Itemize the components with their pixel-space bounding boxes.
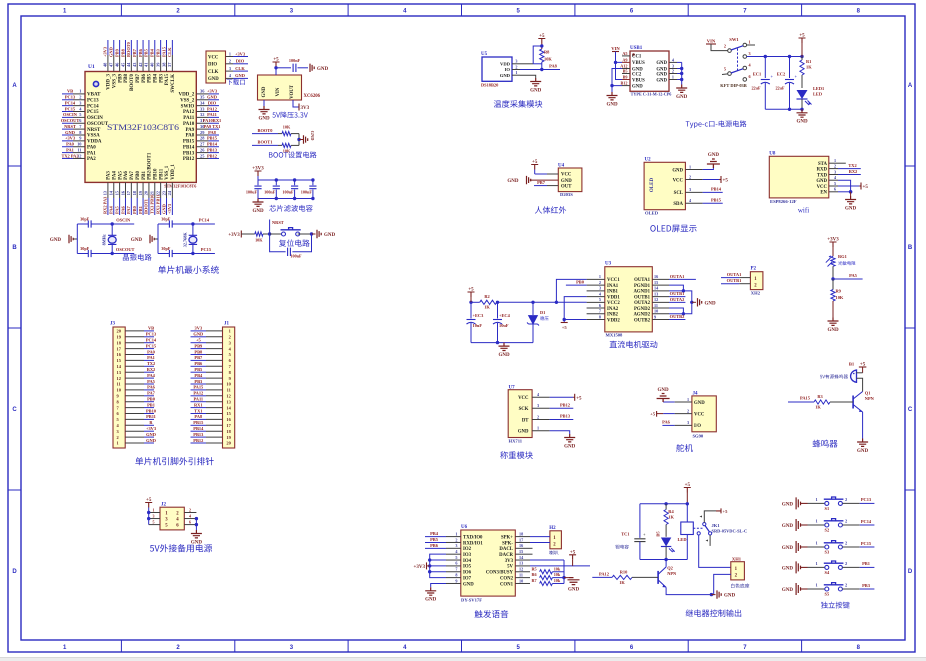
svg-text:PB1: PB1 — [862, 561, 870, 566]
U1 pin 22 PB11 — [160, 182, 162, 198]
svg-text:14: 14 — [109, 190, 114, 195]
svg-text:2: 2 — [455, 537, 457, 542]
svg-text:B9: B9 — [623, 75, 628, 80]
svg-text:3: 3 — [537, 403, 539, 408]
svg-text:PB11: PB11 — [159, 168, 164, 180]
svg-text:OSCIN: OSCIN — [63, 112, 78, 117]
svg-text:5: 5 — [517, 9, 521, 15]
svg-text:100nF: 100nF — [264, 190, 276, 195]
U1 pin 47 VSS_3 — [113, 55, 115, 72]
wire net PA9 TX1 — [209, 128, 220, 130]
capacitor EC4 10uF — [497, 302, 499, 318]
svg-text:SPK-: SPK- — [502, 541, 513, 546]
svg-text:VDD: VDD — [500, 61, 511, 66]
switch lever 2-1 — [731, 46, 743, 50]
wire OUTB2 — [669, 319, 685, 321]
svg-text:1: 1 — [229, 51, 231, 56]
svg-text:TXD: TXD — [817, 173, 828, 178]
svg-text:33: 33 — [200, 106, 205, 111]
wire — [291, 144, 299, 146]
svg-text:OUTB1: OUTB1 — [634, 295, 651, 300]
wire net PA0 — [144, 354, 154, 356]
svg-text:10k: 10k — [554, 578, 561, 583]
wire net BOOT0 — [130, 40, 132, 55]
U1 pin 9 VDDA — [73, 140, 85, 142]
svg-text:16: 16 — [519, 543, 523, 548]
svg-text:17: 17 — [126, 190, 131, 195]
svg-text:1: 1 — [672, 75, 674, 80]
svg-text:GND: GND — [782, 502, 794, 507]
svg-text:PB10: PB10 — [153, 168, 158, 180]
svg-text:GND: GND — [658, 388, 670, 393]
svg-text:+: + — [771, 74, 774, 79]
svg-text:PB1: PB1 — [142, 171, 147, 180]
svg-text:PB15: PB15 — [183, 140, 195, 145]
svg-text:GND: GND — [317, 67, 329, 72]
svg-text:GND: GND — [207, 95, 217, 100]
svg-text:GND: GND — [656, 72, 667, 77]
svg-text:1: 1 — [749, 40, 751, 45]
ground — [69, 235, 73, 243]
svg-text:GND: GND — [724, 594, 736, 599]
ground — [259, 106, 270, 114]
svg-text:GND: GND — [796, 120, 808, 125]
svg-text:VIN: VIN — [707, 39, 716, 44]
net label OSCIN — [112, 223, 134, 225]
svg-text:GND: GND — [564, 444, 576, 449]
svg-text:5: 5 — [153, 520, 155, 525]
svg-text:GND: GND — [131, 238, 143, 243]
button S1 — [825, 501, 829, 505]
power port +5 — [569, 555, 576, 560]
svg-text:PC14: PC14 — [87, 104, 99, 109]
wire — [233, 77, 248, 79]
wire — [677, 73, 682, 75]
svg-text:PB12: PB12 — [560, 403, 570, 408]
U1 pin 19 PB1 — [142, 182, 144, 198]
wire net GND — [62, 134, 73, 136]
wire +5 drop — [801, 43, 803, 57]
wire net PB15 — [209, 140, 220, 142]
wire R8 to IO — [541, 62, 543, 70]
wire VCC1 — [556, 279, 586, 302]
svg-text:RX1: RX1 — [194, 402, 203, 407]
svg-text:+3V3: +3V3 — [207, 89, 218, 94]
U1 pin 35 VSS_2 — [196, 99, 208, 101]
svg-text:OUTB1: OUTB1 — [727, 278, 742, 283]
svg-text:+3V3: +3V3 — [235, 51, 246, 56]
wire net PB5 — [191, 371, 207, 373]
svg-text:PB12: PB12 — [207, 153, 217, 158]
U1 pin 36 VDD_2 — [196, 93, 208, 95]
svg-text:OSCOUT: OSCOUT — [87, 122, 109, 127]
U1 pin 8 VSSA — [73, 134, 85, 136]
svg-text:2: 2 — [79, 95, 81, 100]
capacitor 100nF — [288, 248, 291, 256]
wire join — [298, 134, 300, 146]
svg-text:PB2/BOOT1: PB2/BOOT1 — [148, 152, 153, 180]
power port +5 — [574, 394, 576, 401]
svg-text:10K: 10K — [283, 125, 291, 130]
svg-text:BOOT1: BOOT1 — [258, 140, 273, 145]
svg-text:VSS_2: VSS_2 — [180, 98, 195, 103]
svg-text:PB0: PB0 — [147, 397, 156, 402]
svg-text:8: 8 — [455, 572, 457, 577]
wire net +5 — [191, 342, 207, 344]
svg-text:R5: R5 — [532, 566, 537, 571]
wire net PB6 — [425, 547, 446, 549]
wire net PB7 — [136, 40, 138, 55]
svg-text:STM32F103C8T6: STM32F103C8T6 — [164, 184, 196, 189]
svg-text:39: 39 — [155, 62, 160, 67]
svg-text:1K: 1K — [619, 580, 625, 585]
svg-text:1: 1 — [687, 397, 689, 402]
wire PGND2/AGND2 — [669, 313, 683, 315]
wire SCL net PB14 — [703, 191, 723, 193]
svg-text:VBUS: VBUS — [632, 78, 645, 83]
svg-text:22uF: 22uF — [751, 86, 761, 91]
U1 pin 14 PA4 — [113, 182, 115, 198]
svg-text:PB12: PB12 — [193, 438, 203, 443]
wire gnd up — [703, 168, 714, 170]
wire net PA6 — [144, 389, 154, 391]
svg-text:2: 2 — [845, 518, 847, 523]
svg-text:11: 11 — [77, 147, 81, 152]
svg-text:20: 20 — [144, 190, 149, 195]
wire loop — [270, 234, 286, 252]
U1 pin 3 PC14 — [73, 105, 85, 107]
U1 pin 37 SWCLK — [171, 55, 173, 72]
wire net PA8 — [191, 418, 207, 420]
svg-text:IO6: IO6 — [463, 571, 472, 576]
U1 pin 1 VBAT — [73, 93, 85, 95]
wire OUTA1 — [669, 278, 696, 280]
wire VDD1/VDD2 +5 — [564, 297, 586, 323]
svg-text:GND: GND — [827, 328, 839, 333]
svg-text:2: 2 — [724, 44, 726, 49]
wire S5 pin2 net PB3 — [842, 588, 859, 590]
svg-text:RX2: RX2 — [147, 367, 156, 372]
capacitor 100nF — [293, 64, 296, 72]
caption Type-c口-电源电路 — [686, 120, 747, 128]
wire left rail — [76, 224, 78, 254]
svg-text:37: 37 — [167, 62, 172, 67]
svg-text:25: 25 — [200, 153, 205, 158]
resistor 10K — [282, 132, 291, 136]
svg-text:5V: 5V — [507, 565, 513, 570]
U1 pin 5 OSCIN — [73, 116, 85, 118]
wire — [430, 571, 446, 573]
wire vdd riser — [533, 46, 542, 64]
svg-text:PC13: PC13 — [65, 95, 76, 100]
svg-text:2: 2 — [537, 414, 539, 419]
svg-text:GND: GND — [65, 130, 75, 135]
svg-text:SRD-05VDC-SL-C: SRD-05VDC-SL-C — [712, 529, 748, 534]
wire net PC15 — [144, 348, 154, 350]
svg-text:R10: R10 — [620, 570, 628, 575]
wire PGND1/AGND1 — [669, 290, 683, 292]
wire — [552, 577, 564, 579]
svg-text:PB4: PB4 — [150, 48, 155, 57]
svg-text:GND: GND — [845, 206, 857, 211]
svg-text:GND: GND — [193, 332, 203, 337]
svg-text:PB13: PB13 — [193, 432, 204, 437]
svg-text:NRST: NRST — [272, 220, 284, 225]
ground — [717, 590, 721, 598]
U1 pin 38 PA15 — [166, 55, 168, 72]
svg-text:2: 2 — [845, 561, 847, 566]
svg-text:OUTB2: OUTB2 — [670, 314, 685, 319]
svg-text:GND: GND — [656, 61, 667, 66]
svg-text:PB15: PB15 — [711, 197, 722, 202]
svg-text:GND: GND — [235, 73, 245, 78]
wire DACR stub — [530, 553, 533, 555]
svg-text:10: 10 — [654, 309, 658, 314]
wire net DIO — [209, 105, 220, 107]
svg-text:18: 18 — [132, 190, 137, 195]
svg-text:23: 23 — [161, 190, 166, 195]
J2 right pin 6 — [184, 524, 196, 526]
svg-text:KFT DIP-03B: KFT DIP-03B — [720, 83, 746, 88]
button S4 — [825, 565, 829, 569]
wire NO to +5 — [704, 511, 716, 523]
wire net PA6 — [124, 198, 126, 215]
svg-text:3: 3 — [153, 513, 155, 518]
svg-text:2: 2 — [845, 497, 847, 502]
svg-text:29: 29 — [200, 130, 205, 135]
wire OUTA2 stub — [669, 301, 685, 303]
wire net VB — [62, 93, 73, 95]
svg-text:PA2: PA2 — [87, 157, 96, 162]
resistor RG1 photoresistor — [832, 247, 834, 256]
power port +3V3 — [255, 171, 262, 176]
ground — [611, 86, 613, 92]
wire coil top — [686, 504, 688, 522]
svg-text:PB9: PB9 — [194, 343, 203, 348]
svg-text:PA5: PA5 — [114, 205, 119, 214]
svg-text:5: 5 — [724, 67, 726, 72]
svg-text:32.768K: 32.768K — [182, 232, 187, 248]
svg-text:H2: H2 — [549, 526, 556, 531]
wire I/O net PA6 — [662, 424, 674, 426]
svg-text:4: 4 — [403, 645, 407, 651]
power port +5 — [468, 292, 475, 297]
svg-text:SG90: SG90 — [693, 434, 704, 439]
svg-text:PA15: PA15 — [161, 46, 166, 57]
capacitor 30pF — [169, 250, 172, 257]
wire net TX2 PA2 — [62, 157, 73, 159]
svg-text:10K: 10K — [544, 57, 552, 62]
svg-text:LED: LED — [813, 92, 822, 97]
wire GND pin down — [263, 100, 265, 106]
wire net PB4 — [191, 377, 207, 379]
svg-text:1: 1 — [117, 441, 119, 446]
svg-text:34: 34 — [200, 100, 205, 105]
svg-text:1: 1 — [229, 329, 231, 334]
caption 5V降压3.3V — [272, 112, 307, 118]
wire GND — [663, 401, 675, 403]
svg-text:+5: +5 — [196, 338, 202, 343]
svg-text:Q1: Q1 — [865, 391, 871, 396]
wire net PA7 — [130, 198, 132, 215]
svg-text:VSS_1: VSS_1 — [165, 165, 170, 180]
wire net OSCOUT — [62, 122, 73, 124]
U1 pin 6 OSCOUT — [73, 122, 85, 124]
relay contacts — [693, 527, 702, 529]
svg-text:7: 7 — [599, 309, 601, 314]
svg-text:41: 41 — [144, 63, 149, 67]
wire coil bottom — [686, 535, 688, 560]
svg-text:38: 38 — [161, 62, 166, 67]
U1 pin 48 VDD_3 — [107, 55, 109, 72]
wire — [298, 233, 312, 235]
svg-text:PC15: PC15 — [861, 541, 872, 546]
svg-text:VSS_3: VSS_3 — [112, 74, 117, 89]
svg-text:B1: B1 — [849, 362, 855, 367]
caption 舵机 — [676, 444, 693, 452]
svg-text:3: 3 — [515, 59, 517, 64]
svg-text:1: 1 — [815, 561, 817, 566]
ground — [828, 318, 839, 326]
svg-text:GND: GND — [498, 353, 510, 358]
svg-text:PB14: PB14 — [711, 187, 722, 192]
svg-text:PC14: PC14 — [199, 217, 210, 222]
wire SPK- — [530, 541, 550, 543]
svg-text:IO7: IO7 — [463, 576, 472, 581]
svg-text:MX1508: MX1508 — [606, 333, 624, 338]
wire GND jog — [838, 180, 851, 192]
wire VCC to +5 — [547, 173, 558, 175]
svg-text:TX3 PB10: TX3 PB10 — [150, 194, 155, 214]
wire bottom rail — [640, 559, 687, 561]
svg-text:GND: GND — [191, 540, 203, 545]
wire net PB13 — [209, 152, 220, 154]
svg-text:8: 8 — [599, 314, 601, 319]
svg-text:SCL: SCL — [674, 191, 683, 196]
svg-text:TX1: TX1 — [194, 408, 202, 413]
svg-text:OLED: OLED — [645, 211, 659, 216]
wire — [91, 223, 112, 225]
wire — [241, 233, 255, 235]
svg-text:EC2: EC2 — [777, 72, 785, 77]
svg-text:wifi: wifi — [798, 207, 809, 215]
svg-text:2: 2 — [834, 163, 836, 168]
svg-text:VBUS: VBUS — [632, 61, 645, 66]
svg-text:VBAT: VBAT — [87, 93, 101, 98]
svg-text:VB: VB — [67, 89, 73, 94]
wire DACL stub — [530, 547, 533, 549]
svg-text:GND: GND — [694, 401, 705, 406]
svg-text:+3V3: +3V3 — [414, 565, 426, 570]
svg-text:30pF: 30pF — [80, 216, 90, 221]
svg-text:3: 3 — [229, 66, 231, 71]
svg-text:3: 3 — [290, 645, 294, 651]
svg-text:XC6206: XC6206 — [304, 94, 321, 99]
svg-text:PB7: PB7 — [136, 74, 141, 83]
wire — [552, 571, 564, 573]
wire to NRST node — [263, 233, 270, 235]
U1 pin 40 PB4 — [154, 55, 156, 72]
svg-text:5: 5 — [517, 645, 521, 651]
svg-text:S1: S1 — [825, 506, 830, 511]
svg-text:CC2: CC2 — [632, 72, 642, 77]
svg-text:4: 4 — [189, 513, 191, 518]
ground — [253, 199, 264, 207]
svg-text:R: R — [149, 420, 153, 425]
svg-text:PB3: PB3 — [155, 48, 160, 57]
wire net PB14 — [209, 146, 220, 148]
svg-text:PB9: PB9 — [118, 74, 123, 83]
svg-text:GND: GND — [252, 209, 264, 214]
svg-text:S2: S2 — [825, 528, 830, 533]
svg-text:B: B — [12, 245, 17, 251]
svg-text:PA15: PA15 — [193, 385, 204, 390]
wire S2 pin2 net PC14 — [842, 524, 859, 526]
wire net PB4 — [154, 40, 156, 55]
svg-text:+5: +5 — [273, 58, 279, 63]
capacitor 30pF — [88, 250, 91, 257]
svg-text:PA4: PA4 — [147, 373, 156, 378]
svg-text:RG1: RG1 — [838, 254, 847, 259]
svg-text:PA8: PA8 — [186, 134, 195, 139]
wire OUTB1 stub — [669, 296, 685, 298]
wire net GND — [144, 436, 154, 438]
svg-text:GND: GND — [606, 102, 618, 107]
svg-text:GND: GND — [324, 233, 336, 238]
svg-text:45: 45 — [120, 62, 125, 67]
svg-text:R6: R6 — [532, 572, 537, 577]
svg-text:1: 1 — [537, 426, 539, 431]
wire — [233, 70, 248, 72]
svg-text:PA4: PA4 — [109, 205, 114, 214]
svg-text:3: 3 — [749, 51, 751, 56]
regulator U? XC6206 — [258, 75, 302, 100]
svg-text:+5: +5 — [146, 498, 152, 503]
wire IO net PA8 — [520, 69, 560, 71]
svg-text:U3: U3 — [605, 262, 612, 267]
wire led down — [665, 547, 667, 560]
wire S5 pin1 — [808, 588, 825, 590]
wire net TX1 — [191, 413, 207, 415]
wire net PC15 — [62, 111, 73, 113]
wire VCC +5 — [550, 396, 574, 398]
svg-text:R9: R9 — [836, 289, 842, 294]
U1 pin 23 VSS_1 — [166, 182, 168, 198]
svg-text:NPN: NPN — [667, 571, 677, 576]
svg-text:PA11: PA11 — [207, 112, 217, 117]
svg-text:PB5: PB5 — [148, 74, 153, 83]
wire gnd rail — [471, 342, 533, 344]
wire collector — [665, 560, 667, 567]
U1 pin 20 PB2/BOOT1 — [148, 182, 150, 198]
wire net PB5 — [425, 541, 446, 543]
wire net CLK — [171, 40, 173, 55]
svg-text:3: 3 — [599, 286, 601, 291]
wire net +3V3 — [209, 93, 220, 95]
svg-text:PA9: PA9 — [186, 128, 195, 133]
svg-text:BOOT0: BOOT0 — [126, 41, 131, 57]
wire top rail — [640, 503, 687, 505]
diode D1 zener — [532, 302, 534, 315]
wire net PC13 — [144, 336, 154, 338]
wire — [74, 238, 78, 240]
download port pin 1 — [226, 56, 234, 58]
svg-text:16: 16 — [120, 190, 125, 195]
caption BOOT设置电路 — [269, 151, 317, 158]
svg-text:32: 32 — [200, 112, 204, 117]
svg-text:VOUT: VOUT — [290, 84, 295, 99]
svg-text:R1: R1 — [806, 59, 811, 64]
